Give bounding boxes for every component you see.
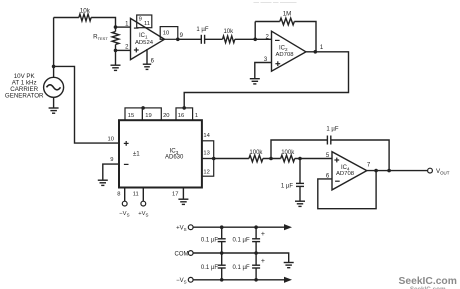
capacitor C1 1uF xyxy=(201,35,204,44)
ground below generator xyxy=(49,108,59,113)
value label 100k (R5) xyxy=(281,150,295,156)
svg-text:+VS: +VS xyxy=(176,226,187,232)
pin 3 label U2 xyxy=(264,57,268,63)
pin 17 stub of U3 xyxy=(182,188,184,200)
wire R_TEST to ground xyxy=(115,50,117,65)
resistor R4 100k xyxy=(249,155,263,162)
wire C2 to output node xyxy=(331,140,389,171)
wire C3 to ground xyxy=(299,186,301,201)
svg-text:9: 9 xyxy=(180,33,184,39)
terminal +Vs rail xyxy=(188,225,193,230)
label Vout xyxy=(436,168,450,175)
svg-text:— —— — ———: — —— — ——— xyxy=(253,0,297,6)
pin 13 label U3 xyxy=(203,151,209,157)
node feedback tap xyxy=(269,157,273,161)
strap box pin 16 of U3 xyxy=(176,108,193,120)
wire pin1 of U1 xyxy=(116,26,131,28)
svg-text:−VS: −VS xyxy=(176,278,187,284)
svg-text:15: 15 xyxy=(128,113,134,119)
pin 20 label U3 xyxy=(163,113,169,119)
svg-text:11: 11 xyxy=(133,192,139,198)
resistor R_TEST xyxy=(112,27,119,50)
wire -Vs rail xyxy=(193,279,285,281)
wire R1 to R_TEST top node xyxy=(91,18,115,28)
ground at U3 pin 17 xyxy=(178,199,188,204)
gain strap box pins 9-11 of U1 xyxy=(137,15,152,28)
label -Vs at pin 8 xyxy=(119,211,129,217)
svg-text:AD708: AD708 xyxy=(276,52,295,58)
value label 10k (R2) xyxy=(223,29,234,35)
wire generator to ground xyxy=(53,97,55,108)
value label 1M (R3) xyxy=(283,11,292,18)
svg-text:12: 12 xyxy=(203,170,209,176)
svg-text:19: 19 xyxy=(145,113,151,119)
resistor R5 100k xyxy=(281,155,295,162)
svg-text:AD630: AD630 xyxy=(165,154,184,160)
faint cropped watermark bottom xyxy=(410,286,446,289)
wire feedback up xyxy=(254,22,256,40)
arrow +Vs rail xyxy=(284,224,292,230)
svg-text:1 µF: 1 µF xyxy=(196,27,208,33)
node U3 output pin 13 xyxy=(212,157,216,161)
node output join C2 xyxy=(387,169,391,173)
svg-text:−VS: −VS xyxy=(119,211,129,217)
op-amp U4 AD708 xyxy=(332,152,367,190)
node U2 output xyxy=(314,50,318,54)
pin 11 label U3 bottom xyxy=(133,192,139,198)
value label 0.1 uF (C5) xyxy=(233,238,250,244)
terminal COM rail xyxy=(188,251,193,256)
pin 10 label U3 xyxy=(108,137,114,143)
pin 9 label U1 output xyxy=(180,33,184,39)
svg-text:0.1 µF: 0.1 µF xyxy=(201,265,218,271)
label +Vs rail xyxy=(176,226,187,232)
strap box pin 19 of U3 xyxy=(142,108,161,120)
capacitor C4 0.1uF xyxy=(218,227,226,253)
ground below C3 xyxy=(295,201,305,206)
value label 1 uF (C2) xyxy=(326,126,338,132)
svg-text:9: 9 xyxy=(110,157,113,163)
pin 9 label U3 xyxy=(110,157,113,163)
pin 12 label U3 xyxy=(203,170,209,176)
wire R5 to U4 pin 5 xyxy=(295,158,332,160)
pin 11 stub of U3 xyxy=(142,188,144,202)
watermark SeekIC.com xyxy=(399,276,457,287)
value label 0.1 uF (C6) xyxy=(201,265,218,271)
pin 8 label U3 xyxy=(117,192,120,198)
pin 10 label U1 xyxy=(163,31,169,37)
capacitor C6 0.1uF xyxy=(218,253,226,280)
svg-text:AD524: AD524 xyxy=(135,40,154,46)
svg-text:IC1: IC1 xyxy=(139,33,148,39)
pin 6 stem of U1 xyxy=(146,49,148,64)
value label 10k (R1) xyxy=(80,7,91,14)
wire U4 output xyxy=(367,170,428,172)
pin 2 label U2 xyxy=(265,34,269,40)
pin 5 label U4 xyxy=(326,153,330,159)
svg-text:100k: 100k xyxy=(249,150,263,156)
terminal -Vs at pin 8 xyxy=(122,201,127,206)
svg-text:+VS: +VS xyxy=(138,211,148,217)
wire COM rail xyxy=(193,253,289,262)
svg-text:1: 1 xyxy=(320,45,324,51)
svg-text:20: 20 xyxy=(163,113,169,119)
svg-text:2: 2 xyxy=(125,45,129,51)
wire C1 to R2 xyxy=(205,38,223,40)
svg-text:COM: COM xyxy=(175,251,189,257)
svg-text:10: 10 xyxy=(163,31,169,37)
pin 17 label U3 xyxy=(172,192,178,198)
pin 1 label U2 xyxy=(320,45,324,51)
resistor R1 10k xyxy=(79,14,91,21)
strap box pins 14-13 of U3 xyxy=(202,141,214,159)
pin 15 label U3 xyxy=(128,113,134,119)
terminal Vout xyxy=(428,168,433,173)
capacitor C2 1uF xyxy=(327,136,330,145)
value label 100k (R4) xyxy=(249,150,263,156)
svg-text:+: + xyxy=(261,258,265,265)
value label 1 uF (C3) xyxy=(281,183,293,189)
svg-text:1: 1 xyxy=(195,113,198,119)
svg-text:8: 8 xyxy=(117,192,120,198)
svg-text:10: 10 xyxy=(108,137,114,143)
wire U2 pin 3 to ground xyxy=(255,63,272,79)
svg-text:±1: ±1 xyxy=(133,151,140,158)
node U2 inverting input xyxy=(253,38,257,42)
resistor R2 10k xyxy=(223,36,235,43)
pin 6 label U4 xyxy=(326,174,330,180)
wire from carrier node to resistor R1 xyxy=(54,17,79,19)
svg-text:IC2: IC2 xyxy=(279,46,288,52)
svg-text:VOUT: VOUT xyxy=(436,168,450,175)
node shunt cap tap xyxy=(298,157,302,161)
pin 14 label U3 xyxy=(203,133,210,139)
ground at U3 pin 9 xyxy=(98,180,108,185)
wire U2 output to AD630 pin 16 xyxy=(184,52,348,108)
modulator U3 AD630 xyxy=(119,120,202,187)
resistor R3 1M xyxy=(280,18,295,25)
ground below R_TEST xyxy=(111,65,121,70)
pin 7 label U4 xyxy=(367,162,371,168)
wire U4 feedback xyxy=(318,171,376,209)
output strap box pin 10 of U1 xyxy=(160,27,178,40)
value label 0.1 uF (C4) xyxy=(201,238,218,244)
svg-text:16: 16 xyxy=(178,113,184,119)
wire feedback tap up xyxy=(271,140,327,159)
svg-text:0.1 µF: 0.1 µF xyxy=(233,238,250,244)
polarity + of C7 xyxy=(261,258,265,265)
svg-text:7: 7 xyxy=(367,162,371,168)
node carrier junction xyxy=(52,65,56,69)
node -Vs cap1 xyxy=(220,278,224,282)
pin 6 label U1 xyxy=(151,58,155,64)
terminal +Vs at pin 11 xyxy=(141,201,146,206)
label -Vs rail xyxy=(176,278,187,284)
op-amp U2 AD708 xyxy=(272,31,306,71)
label COM rail xyxy=(175,251,189,257)
node at R_TEST top / pin 1 xyxy=(114,25,118,29)
pin 16 label U3 xyxy=(178,113,184,119)
svg-text:0.1 µF: 0.1 µF xyxy=(201,238,218,244)
node +Vs cap2 xyxy=(254,225,258,229)
strap box pins 13-12 of U3 xyxy=(202,159,214,177)
pin 1 label U1 xyxy=(125,21,129,27)
svg-text:11: 11 xyxy=(144,21,150,27)
ground below U1 pin 6 xyxy=(143,64,151,69)
value label 0.1 uF (C7) xyxy=(233,265,250,271)
pin 19 label U3 xyxy=(145,113,151,119)
capacitor C3 1uF xyxy=(296,183,304,186)
wire carrier node to AD630 pin 10 xyxy=(54,66,119,143)
wire feedback top right xyxy=(294,22,316,52)
node COM cap2 xyxy=(254,251,258,255)
svg-text:1M: 1M xyxy=(283,11,292,18)
label carrier generator xyxy=(5,73,44,99)
wire U3 pin 9 to ground xyxy=(103,164,119,180)
strap box pin 15 of U3 xyxy=(125,108,142,120)
terminal -Vs rail xyxy=(188,277,193,282)
label +Vs at pin 11 xyxy=(138,211,148,217)
wire feedback top left xyxy=(255,21,280,23)
pin 11 label U1 (strap box) xyxy=(144,21,150,27)
svg-text:1 µF: 1 µF xyxy=(326,126,338,132)
faint cropped caption top xyxy=(253,0,297,6)
svg-text:9: 9 xyxy=(139,16,142,22)
pin 1 label U3 xyxy=(195,113,198,119)
ground at U2 pin 3 xyxy=(250,79,260,84)
pin 8 stub of U3 xyxy=(124,188,126,202)
op-amp U1 AD524 xyxy=(131,18,165,59)
node at R_TEST bottom / pin 2 xyxy=(114,49,118,53)
wire carrier vertical xyxy=(53,18,55,78)
node U1 output xyxy=(176,38,180,42)
svg-text:100k: 100k xyxy=(281,150,295,156)
wire pin2 of U1 xyxy=(116,49,131,51)
svg-text:17: 17 xyxy=(172,192,178,198)
pin 2 label U1 xyxy=(125,45,129,51)
arrow -Vs rail xyxy=(284,277,292,283)
node -Vs cap2 xyxy=(254,278,258,282)
svg-text:SeekIC.com: SeekIC.com xyxy=(399,276,457,287)
svg-text:+: + xyxy=(261,231,265,238)
pin 9 label U1 (strap box) xyxy=(139,16,142,22)
svg-text:10k: 10k xyxy=(223,29,234,35)
svg-text:14: 14 xyxy=(203,133,210,139)
svg-text:0.1 µF: 0.1 µF xyxy=(233,265,250,271)
node pin 16 feed xyxy=(182,106,186,110)
svg-text:1 µF: 1 µF xyxy=(281,183,293,189)
node U4 feedback join xyxy=(374,169,378,173)
capacitor C5 0.1uF xyxy=(252,227,260,253)
wire +Vs rail xyxy=(193,226,285,228)
wire U1 output to C1 xyxy=(178,38,202,40)
svg-text:10k: 10k xyxy=(80,7,91,14)
svg-text:GENERATOR: GENERATOR xyxy=(5,92,44,99)
value label 1 uF (C1) xyxy=(196,27,208,33)
wire U3 output to R4 xyxy=(214,158,249,160)
wire R4 to R5 xyxy=(263,158,281,160)
wire R2 to U2 pin 2 xyxy=(235,38,272,40)
svg-text:6: 6 xyxy=(151,58,155,64)
svg-text:RTEST: RTEST xyxy=(93,34,108,42)
svg-text:13: 13 xyxy=(203,151,209,157)
node +Vs cap1 xyxy=(220,225,224,229)
label R_TEST xyxy=(93,34,108,42)
polarity + of C5 xyxy=(261,231,265,238)
wire shunt cap xyxy=(299,159,301,184)
node strap 15-19 xyxy=(141,106,145,110)
ground at COM xyxy=(284,263,294,268)
generator G1 sine source xyxy=(44,77,64,97)
capacitor C7 0.1uF xyxy=(252,253,260,280)
svg-text:AD708: AD708 xyxy=(336,171,355,177)
node COM cap1 xyxy=(220,251,224,255)
